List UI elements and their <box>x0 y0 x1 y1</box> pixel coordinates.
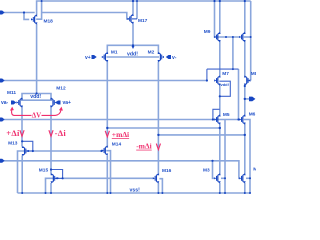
wire M11 M12 bulk <box>21 99 52 101</box>
ports (solid arrows) <box>0 11 255 163</box>
wire top rail A vdd <box>37 1 251 15</box>
wire M1 drain down to M14 <box>106 62 108 147</box>
wire M17 stub <box>136 1 138 19</box>
wire M14 source down <box>106 156 108 194</box>
svg-text:M5: M5 <box>223 112 230 118</box>
annotation deltaV arc left with arrowhead <box>12 110 32 115</box>
pink annotations <box>12 110 161 150</box>
node vss M15 source <box>50 192 52 194</box>
wire M13 to M14 gate <box>33 150 103 152</box>
wire M2 drain to out column <box>158 134 244 136</box>
wire port4 line to M3 M4 gates <box>3 161 240 179</box>
transistor M4 nmos <box>239 173 246 183</box>
svg-text:M18: M18 <box>44 19 54 25</box>
svg-text:v+: v+ <box>85 55 91 61</box>
svg-text:M9: M9 <box>204 29 211 35</box>
transistor M17 pmos <box>127 14 133 24</box>
annotation +mdi down chevron <box>105 131 109 137</box>
wire M11 drain down to M13 <box>21 106 23 147</box>
wire M7 bias rail <box>207 68 239 70</box>
svg-text:M1: M1 <box>111 50 118 56</box>
svg-text:ΔV: ΔV <box>32 111 41 119</box>
svg-text:M13: M13 <box>8 141 18 147</box>
node vss M3 source <box>219 192 221 194</box>
wire M16 source down <box>157 183 159 193</box>
node M3 bulk join <box>224 177 226 179</box>
wire M15 diode loop <box>51 170 63 179</box>
svg-text:vdd!: vdd! <box>127 52 138 58</box>
wire M16 bulk down <box>159 179 162 193</box>
wire vss rail <box>18 192 251 194</box>
node M14 gate end <box>100 150 102 152</box>
node M6 gate <box>237 118 239 120</box>
wire M4 bulk stub <box>246 177 250 179</box>
node vss M16 bulk <box>161 192 163 194</box>
wire M3 bulk stub <box>221 177 225 179</box>
node rail A M9R source <box>244 0 246 2</box>
node M13 bulk mid <box>27 150 29 152</box>
svg-text:M12: M12 <box>56 86 66 92</box>
svg-text:M11: M11 <box>7 90 16 96</box>
transistor M2 pmos mirrored <box>158 52 165 62</box>
transistor M13 nmos mirrored <box>22 146 29 156</box>
wire M18 bulk tie <box>36 1 41 19</box>
node vss M4 source <box>244 192 246 194</box>
svg-text:vdd!: vdd! <box>30 94 41 100</box>
node M9R bulk on Va <box>250 36 252 38</box>
svg-text:M14: M14 <box>112 141 122 147</box>
node vss M14 source <box>106 192 108 194</box>
wire M14 bulk down <box>106 151 110 193</box>
transistor M6 nmos <box>239 114 246 124</box>
svg-text:va-: va- <box>1 100 9 106</box>
transistor M9L pmos <box>214 32 221 42</box>
node port1 gate tap <box>23 11 25 13</box>
node output tap <box>244 98 246 100</box>
port output right <box>249 97 255 102</box>
transistor M8 pmos mirrored <box>244 75 251 85</box>
svg-text:M2: M2 <box>148 50 155 56</box>
port V+ arrow <box>92 55 97 59</box>
wire left cascode column <box>219 1 221 33</box>
port V- arrow <box>166 55 171 59</box>
annotation deltaV head right <box>59 107 63 111</box>
wire M12 drain down to M15 <box>50 106 52 175</box>
port va+ arrow <box>55 101 60 105</box>
annotation -mdi down chevron <box>156 144 160 150</box>
wire bias tap M9 rail to M7 loop <box>232 37 234 69</box>
annotation -di down chevron <box>49 130 53 136</box>
node M13 drain top <box>21 140 23 142</box>
wire M17 bulk stub <box>132 18 137 20</box>
wire M17 drain down to pair rail <box>132 23 134 45</box>
node M8 bulk at column <box>244 85 246 87</box>
wire M18 drain down to M11/M12 rail <box>36 24 38 94</box>
wire M17 source up <box>132 1 134 15</box>
wire M13 bulk down <box>18 151 25 193</box>
wire right cascode column <box>244 1 246 33</box>
wire M4 source down <box>244 183 246 193</box>
node M5 gate <box>212 118 214 120</box>
node port4 M3 tap <box>211 160 213 162</box>
node M15 drain top <box>50 168 52 170</box>
port pin1 left <box>0 11 5 15</box>
node vss M15 bulk <box>45 192 47 194</box>
node rail A M9 gate <box>213 0 215 2</box>
node vss M6 bulk col <box>249 192 251 194</box>
wire M6 bulk down <box>244 120 250 194</box>
wire M13 source down <box>21 156 23 194</box>
svg-text:+Δi: +Δi <box>6 128 20 138</box>
annotation +di down chevron <box>20 130 24 136</box>
svg-text:v-: v- <box>172 55 177 61</box>
transistor M14 nmos <box>102 145 109 155</box>
node M2 drain split <box>157 134 159 136</box>
svg-text:vdd!: vdd! <box>221 82 229 87</box>
svg-text:vss!: vss! <box>130 188 141 194</box>
node vss M14 bulk <box>110 192 112 194</box>
transistor M18 pmos <box>31 14 38 24</box>
transistor M16 nmos <box>153 173 160 183</box>
wire M15 source down <box>50 183 52 193</box>
svg-text:M8: M8 <box>251 71 256 77</box>
wire M8 gate stub <box>247 80 250 82</box>
wire M15 bulk stub right <box>54 177 62 179</box>
wire output stub <box>245 98 249 100</box>
node M9 tap <box>232 36 234 38</box>
node M7 gate <box>206 79 208 81</box>
port pin2 left <box>0 79 5 83</box>
transistor M7 pmos <box>214 75 221 85</box>
wires: light blue, components: dark blue <box>3 1 251 193</box>
wire port2 line to M7 gate <box>3 80 207 82</box>
wire M7 diode loop vertical <box>206 69 208 80</box>
wire rail A right drop to M8 gate <box>250 1 252 81</box>
wire M1 drain to M5 source <box>107 127 220 129</box>
node M9 bulk <box>225 36 227 38</box>
node out column H7 <box>244 134 246 136</box>
wire M2 drain down to M16 <box>157 62 159 175</box>
wire M1 M2 bulk vdd <box>107 56 160 58</box>
vdd tap arrow at pair rail <box>132 46 135 49</box>
svg-text:-Δi: -Δi <box>55 128 67 138</box>
wire M9R bulk to right <box>244 36 251 38</box>
port pin3 left <box>0 118 5 122</box>
transistor M15 nmos mirrored <box>51 173 58 183</box>
transistor M5 nmos <box>214 114 221 124</box>
node M11 rail center <box>36 92 38 94</box>
node tap joins bias loop <box>232 68 234 70</box>
wire M13 diode loop <box>22 141 33 151</box>
transistor M3 nmos <box>214 173 221 183</box>
wire M13 bulk stub right <box>25 150 32 152</box>
transistor M12 pmos mirrored <box>50 97 57 107</box>
svg-text:M16: M16 <box>162 168 172 174</box>
wire M9 gate rail <box>215 1 241 37</box>
wire M7 bulk loop to drain <box>219 81 230 96</box>
wire M11 rail <box>22 94 51 100</box>
svg-text:M4: M4 <box>253 166 256 172</box>
node M15 bulk mid <box>57 177 59 179</box>
port va- arrow <box>11 101 16 105</box>
svg-text:M3: M3 <box>203 168 210 174</box>
svg-text:M7: M7 <box>222 71 229 77</box>
svg-text:M6: M6 <box>249 112 256 118</box>
wire M15 bulk down <box>46 178 54 193</box>
wire M5 bulk down <box>224 120 226 194</box>
annotation deltaV head left <box>10 107 14 111</box>
node rail A M9L source <box>219 0 221 2</box>
node M17 drain at pair rail <box>132 44 134 46</box>
wire M6 gate drop <box>238 69 240 119</box>
node M5 source end <box>219 127 221 129</box>
node M15 gate join <box>62 177 64 179</box>
node rail A M17 <box>132 0 134 2</box>
port pin4 left <box>0 159 5 163</box>
node vss M5 bulk col <box>224 192 226 194</box>
annotation deltaV arc right with arrowhead <box>42 110 61 115</box>
node rail A M18 bulk <box>41 0 43 2</box>
svg-text:+mΔi: +mΔi <box>112 130 129 139</box>
node vss M16 source <box>157 192 159 194</box>
svg-text:-mΔi: -mΔi <box>136 142 152 151</box>
wire M15 to M16 gate <box>63 177 154 179</box>
wire port1 line <box>3 12 35 14</box>
node M13 gate join <box>32 150 34 152</box>
transistor M11 pmos <box>16 97 23 107</box>
node M7 bulk at column <box>219 95 221 97</box>
transistor M1 pmos <box>102 52 109 62</box>
svg-text:va+: va+ <box>63 100 72 106</box>
transistors <box>16 14 250 184</box>
wire M18 gate tap <box>24 13 29 20</box>
medium loops <box>22 69 238 178</box>
wire port3 bias line to M6 gate <box>3 119 239 121</box>
transistor M9R pmos <box>239 32 246 42</box>
wire bias rail B to M17 gate <box>42 13 130 19</box>
wire M5 diode loop <box>213 109 220 119</box>
wire M3 source down <box>219 183 221 193</box>
svg-text:M17: M17 <box>138 18 148 24</box>
wire M3 gate tap <box>213 161 215 179</box>
node vss M13 source <box>21 192 23 194</box>
node M4 bulk join <box>249 177 251 179</box>
wire M1 M2 source rail <box>107 45 158 53</box>
node M1 drain split <box>106 127 108 129</box>
svg-text:M15: M15 <box>39 167 49 173</box>
